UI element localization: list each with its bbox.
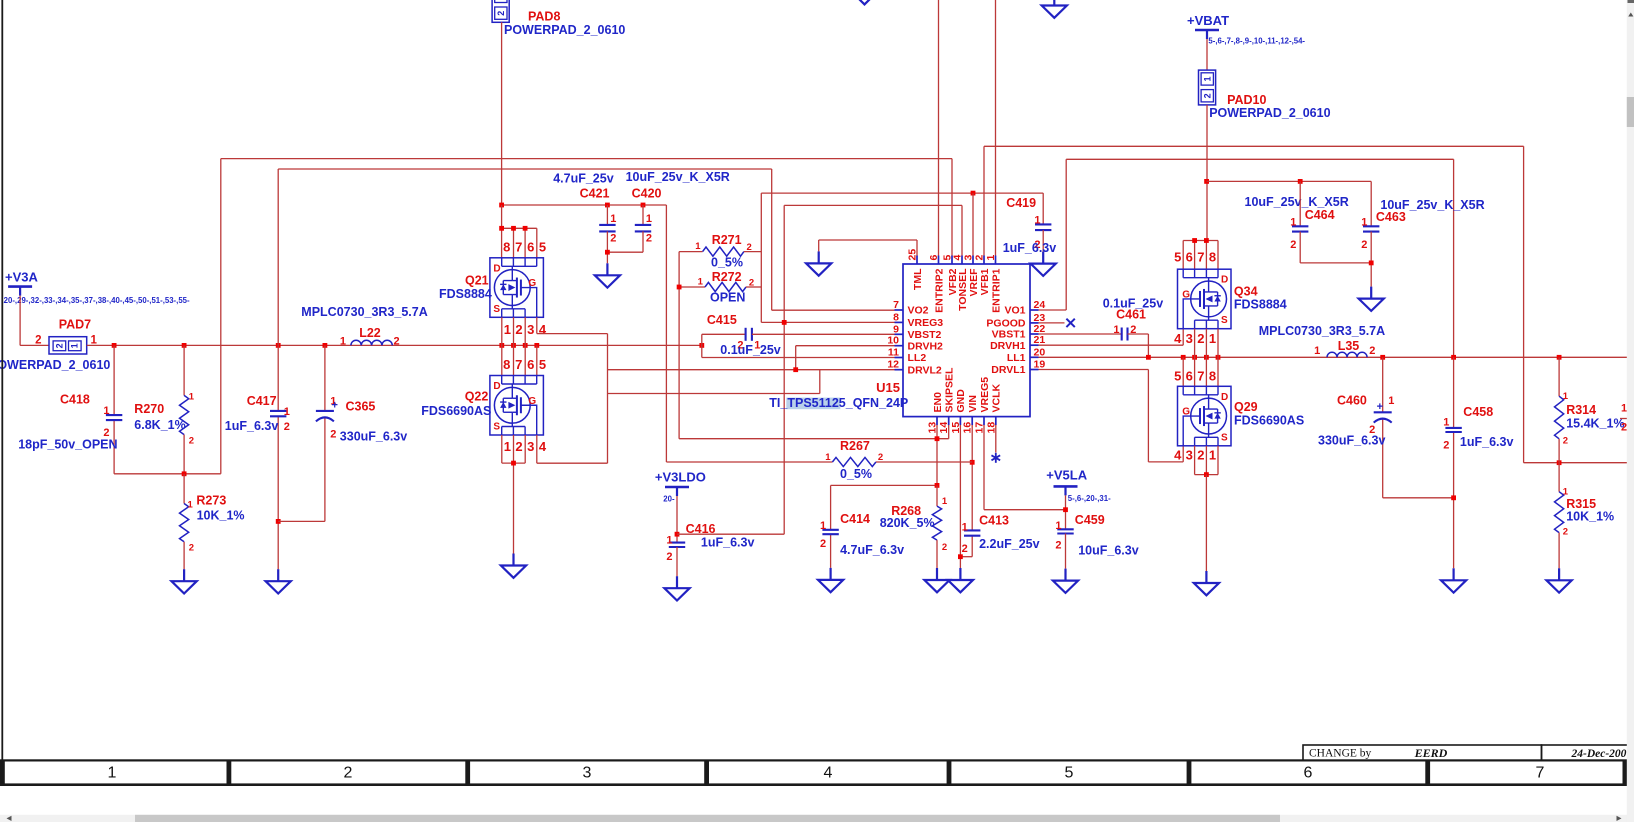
svg-text:+V3A: +V3A: [5, 270, 38, 285]
svg-text:G: G: [1182, 290, 1190, 301]
svg-text:TML: TML: [912, 268, 924, 290]
wire VREG3 line: [761, 193, 1043, 322]
resistor R315: [1555, 463, 1597, 569]
svg-text:2: 2: [1197, 331, 1204, 346]
wire +V3A bus: [87, 344, 702, 346]
junction dot C417/C365: [276, 519, 281, 524]
wire VBST2 left: [702, 333, 746, 335]
wire gate drive riser: [607, 334, 609, 464]
pin numbers Q34 top: [1174, 250, 1216, 265]
pad PAD7: [35, 317, 97, 354]
svg-text:2: 2: [749, 278, 754, 289]
svg-text:GND: GND: [955, 389, 967, 413]
svg-text:C413: C413: [979, 513, 1009, 527]
svg-text:2: 2: [666, 551, 672, 563]
svg-text:24: 24: [1034, 299, 1046, 311]
svg-text:+V3LDO: +V3LDO: [655, 469, 706, 484]
svg-text:C458: C458: [1463, 405, 1493, 419]
svg-text:EN0: EN0: [932, 392, 944, 413]
svg-text:C419: C419: [1006, 196, 1036, 210]
op-amp U15 body TI_TPS51125_QFN_24P: [895, 256, 1039, 426]
junction dot C416 top: [675, 532, 680, 537]
transistor Q22: [421, 376, 543, 436]
svg-text:R267: R267: [840, 439, 870, 453]
label 10uF_6.3v (C459): [1078, 544, 1139, 558]
svg-text:1: 1: [188, 499, 194, 510]
svg-text:VBST1: VBST1: [992, 329, 1026, 341]
svg-text:C417: C417: [247, 394, 277, 408]
power symbol +VBAT: [1187, 13, 1229, 39]
net pin list +V5LA: [1068, 494, 1111, 503]
wire ENTRIP1 riser: [995, 0, 997, 256]
wire LL1 output line: [1039, 356, 1634, 358]
wire Q21 drain header: [502, 205, 537, 258]
pin numbers Q21 top: [503, 240, 546, 255]
wire VFB1 riser and line: [984, 146, 1524, 462]
junction dots on +V3A bus: [112, 343, 705, 348]
ground (C459): [1053, 569, 1078, 593]
junction dot TONSEL/VREG3: [782, 320, 787, 325]
svg-text:+V5LA: +V5LA: [1046, 468, 1087, 483]
label 10uF_25v_K_X5R (C464): [1245, 195, 1349, 209]
svg-text:7: 7: [1536, 765, 1545, 782]
svg-text:1: 1: [1563, 391, 1569, 402]
svg-text:5: 5: [539, 240, 546, 255]
label POWERPAD_2_0610 (PAD7): [0, 358, 110, 372]
svg-text:TI_TPS51125_QFN_24P: TI_TPS51125_QFN_24P: [769, 396, 908, 410]
svg-text:Q22: Q22: [465, 390, 489, 404]
svg-text:6: 6: [1304, 765, 1313, 782]
svg-text:0_5%: 0_5%: [711, 256, 743, 270]
svg-text:ENTRIP2: ENTRIP2: [933, 268, 945, 313]
svg-text:24-Dec-200: 24-Dec-200: [1571, 748, 1627, 760]
junction dot Q22 source: [511, 461, 516, 466]
svg-text:VIN: VIN: [967, 395, 979, 413]
capacitor C420: [607, 187, 661, 253]
resistor R272: [679, 270, 761, 292]
svg-text:PAD10: PAD10: [1227, 93, 1266, 107]
svg-text:C421: C421: [580, 187, 610, 201]
svg-text:POWERPAD_2_0610: POWERPAD_2_0610: [1209, 106, 1330, 120]
svg-text:2: 2: [1563, 526, 1568, 537]
svg-text:1: 1: [1314, 345, 1320, 357]
part number TI_TPS51125_QFN_24P: [769, 396, 908, 410]
svg-text:330uF_6.3v: 330uF_6.3v: [1318, 433, 1385, 447]
svg-text:1: 1: [340, 335, 346, 347]
svg-text:2: 2: [496, 11, 506, 16]
svg-text:SKIPSEL: SKIPSEL: [944, 367, 956, 413]
label 10K_1%: [197, 509, 245, 523]
wire +V5LA to C459: [1063, 495, 1068, 529]
svg-text:11: 11: [888, 347, 899, 359]
label MPLC0730_3R3_5.7A (L22): [301, 305, 427, 319]
capacitor C458: [1443, 405, 1493, 451]
pad PAD8: [492, 0, 625, 37]
svg-text:1: 1: [698, 277, 704, 288]
capacitor C418: [60, 393, 122, 439]
svg-text:5: 5: [1174, 250, 1181, 265]
svg-text:2: 2: [284, 421, 290, 433]
svg-text:330uF_6.3v: 330uF_6.3v: [340, 429, 407, 443]
junction dot R270 bottom: [182, 471, 187, 476]
svg-text:4: 4: [824, 765, 833, 782]
svg-text:FDS6690AS: FDS6690AS: [421, 404, 491, 418]
svg-text:S: S: [493, 304, 500, 315]
svg-text:C415: C415: [707, 313, 737, 327]
svg-text:1: 1: [70, 343, 80, 348]
wire VFB2 riser: [951, 159, 953, 256]
svg-text:2: 2: [1197, 448, 1204, 463]
svg-text:VO1: VO1: [1004, 305, 1025, 317]
wire VIN feed line: [666, 461, 972, 463]
wire DRVL2 line: [608, 369, 895, 371]
label 4.7uF_6.3v (C414): [840, 543, 904, 557]
svg-text:1: 1: [1209, 331, 1216, 346]
svg-text:G: G: [528, 396, 536, 407]
svg-text:0_5%: 0_5%: [840, 467, 872, 481]
svg-text:2: 2: [974, 255, 986, 261]
svg-text:,20-,29-,32-,33-,34-,35-,37-,3: ,20-,29-,32-,33-,34-,35-,37-,38-,40-,45-…: [2, 296, 190, 305]
svg-text:8: 8: [503, 357, 510, 372]
resistor R267: [825, 439, 883, 466]
ground (top partial 2): [1042, 0, 1067, 18]
svg-text:8: 8: [1209, 250, 1216, 265]
wire C417 branch: [277, 169, 279, 569]
svg-text:1: 1: [666, 534, 672, 546]
svg-text:1: 1: [1055, 520, 1061, 532]
svg-text:1: 1: [504, 322, 511, 337]
ground (R268): [924, 568, 949, 592]
svg-text:DRVH1: DRVH1: [990, 340, 1026, 352]
ground (C463/C464): [1359, 287, 1384, 311]
svg-text:2: 2: [820, 538, 826, 550]
wire Q29 source to ground: [1195, 446, 1218, 571]
wire VCLK pin18: [995, 425, 997, 453]
zone numbers: [108, 765, 1545, 782]
svg-text:4: 4: [539, 322, 547, 337]
svg-text:5-,6-,7-,8-,9-,10-,11-,12-,54-: 5-,6-,7-,8-,9-,10-,11-,12-,54-: [1208, 37, 1305, 46]
capacitor C460 (polarized): [1337, 393, 1394, 436]
wire C416 bottom: [676, 547, 678, 576]
svg-text:2: 2: [54, 343, 64, 348]
svg-text:22: 22: [1034, 323, 1046, 335]
capacitor C414: [820, 512, 870, 550]
svg-text:5-,6-,20-,31-: 5-,6-,20-,31-: [1068, 494, 1111, 503]
svg-text:C414: C414: [840, 512, 870, 526]
svg-text:1: 1: [1202, 76, 1212, 81]
svg-text:S: S: [493, 422, 500, 433]
wire C460 branch: [1383, 357, 1454, 498]
net pin list +V3LDO: [663, 494, 675, 503]
wire riser to top rail: [221, 159, 952, 474]
svg-text:LL2: LL2: [908, 352, 927, 364]
svg-text:9: 9: [893, 323, 899, 335]
transistor Q29: [1178, 386, 1305, 446]
svg-text:LL1: LL1: [1007, 352, 1026, 364]
svg-text:20: 20: [1034, 346, 1046, 358]
svg-text:D: D: [1221, 275, 1228, 286]
wire Q22 drain pin5: [536, 345, 538, 375]
wire DRVH2 line: [796, 345, 895, 347]
svg-text:1: 1: [610, 213, 616, 225]
svg-text:2: 2: [1621, 422, 1627, 434]
svg-text:2: 2: [1202, 93, 1212, 98]
junction dots 5V rail: [499, 203, 645, 208]
svg-text:2: 2: [962, 543, 968, 555]
wire TONSEL link: [784, 205, 962, 534]
wire VFB1 feedback line: [1524, 460, 1634, 465]
svg-text:POWERPAD_2_0610: POWERPAD_2_0610: [0, 358, 110, 372]
pin numbers Q29 top: [1174, 368, 1216, 383]
svg-text:12: 12: [887, 359, 899, 371]
svg-text:C463: C463: [1376, 210, 1406, 224]
svg-text:10uF_25v_K_X5R: 10uF_25v_K_X5R: [1245, 195, 1349, 209]
junction dot C421 bottom: [605, 250, 610, 255]
capacitor C416: [666, 522, 715, 563]
svg-text:1: 1: [1388, 395, 1394, 407]
power symbol +V5LA: [1046, 468, 1087, 496]
wire DRVL2 loop: [608, 370, 820, 394]
pin numbers Q29 bottom: [1174, 448, 1216, 463]
reference U15: [876, 380, 900, 395]
wire C418 branch: [114, 345, 221, 473]
svg-text:D: D: [493, 381, 500, 392]
svg-text:2: 2: [1563, 436, 1568, 447]
svg-text:6: 6: [1186, 250, 1193, 265]
svg-text:DRVL1: DRVL1: [991, 364, 1025, 376]
ground (C421/C420): [595, 263, 620, 287]
svg-text:5: 5: [1065, 765, 1074, 782]
svg-text:+: +: [332, 400, 338, 412]
svg-text:19: 19: [1034, 359, 1046, 371]
wire ENTRIP2 riser: [938, 0, 940, 256]
ground (R273): [172, 569, 197, 593]
wire VREF riser: [972, 193, 974, 255]
capacitor C415: [707, 313, 761, 351]
svg-text:1: 1: [1443, 417, 1449, 429]
ground (R315): [1547, 568, 1572, 592]
svg-text:DRVL2: DRVL2: [908, 364, 942, 376]
pin numbers Q34 bottom: [1174, 331, 1216, 346]
label 10uF_25v_K_X5R (C463): [1380, 198, 1484, 212]
svg-text:FDS8884: FDS8884: [439, 287, 492, 301]
capacitor C413: [962, 513, 1009, 555]
wire VBST1 to LL1: [1128, 334, 1149, 357]
label MPLC0730_3R3_5.7A (L35): [1259, 324, 1385, 338]
svg-text:3: 3: [1186, 448, 1193, 463]
no-connect X (PGOOD): [1066, 319, 1074, 327]
wire Q22 gate: [537, 435, 608, 463]
svg-text:EERD: EERD: [1414, 746, 1448, 760]
ground (Q29): [1194, 571, 1219, 595]
svg-text:L35: L35: [1338, 339, 1360, 353]
no-connect star (VCLK): [991, 453, 1000, 463]
svg-text:2: 2: [515, 322, 522, 337]
vertical scrollbar: [1627, 0, 1634, 822]
svg-text:1: 1: [962, 521, 968, 533]
label 6.8K_1%: [134, 418, 185, 432]
svg-text:2: 2: [942, 542, 947, 553]
svg-text:1: 1: [695, 241, 701, 252]
svg-text:2: 2: [189, 436, 194, 447]
svg-text:VREG3: VREG3: [908, 317, 944, 329]
svg-text:1: 1: [646, 213, 652, 225]
svg-text:R270: R270: [134, 402, 164, 416]
svg-text:2: 2: [35, 335, 41, 347]
ground (TML): [806, 251, 831, 275]
ground (top partial 1): [852, 0, 877, 4]
svg-text:10uF_6.3v: 10uF_6.3v: [1078, 544, 1139, 558]
net pin list for +V3A: [2, 296, 190, 305]
svg-text:7: 7: [1197, 250, 1204, 265]
svg-text:1uF_6.3v: 1uF_6.3v: [701, 536, 755, 550]
wire C459 bottom: [1065, 534, 1067, 569]
svg-text:G: G: [1182, 407, 1190, 418]
svg-text:Q34: Q34: [1234, 285, 1258, 299]
wire VBST1 left: [1039, 333, 1122, 335]
svg-text:1: 1: [504, 439, 511, 454]
svg-text:6: 6: [928, 255, 940, 261]
svg-text:R273: R273: [196, 494, 226, 508]
svg-text:C420: C420: [632, 187, 662, 201]
svg-text:1uF_6.3v: 1uF_6.3v: [225, 419, 279, 433]
power symbol +V3A: [5, 270, 38, 296]
svg-text:7: 7: [893, 299, 899, 311]
svg-text:D: D: [1221, 392, 1228, 403]
svg-text:PAD7: PAD7: [59, 317, 91, 331]
svg-text:2: 2: [1290, 239, 1296, 251]
wire GND pin15: [959, 425, 961, 568]
svg-text:MPLC0730_3R3_5.7A: MPLC0730_3R3_5.7A: [301, 305, 427, 319]
wire C416 to TONSEL net: [677, 533, 784, 535]
label 0.1uF_25v (C461): [1103, 297, 1164, 311]
capacitor C461: [1113, 308, 1146, 341]
svg-text:1: 1: [825, 452, 831, 463]
ground (C416): [664, 576, 689, 600]
svg-text:1: 1: [1361, 216, 1367, 228]
svg-text:C464: C464: [1305, 208, 1335, 222]
label OPEN (R272): [710, 290, 745, 304]
pin numbers Q21 bottom: [504, 322, 547, 337]
svg-text:FDS6690AS: FDS6690AS: [1234, 414, 1304, 428]
svg-text:C365: C365: [346, 399, 376, 413]
label 0_5% (R271): [711, 256, 743, 270]
svg-text:0.1uF_25v: 0.1uF_25v: [1103, 297, 1164, 311]
label 0_5% (R267): [840, 467, 872, 481]
net pin list +VBAT: [1208, 37, 1305, 46]
label 0.1uF_25v (C415): [720, 343, 781, 357]
ground (C417): [266, 569, 291, 593]
svg-text:0.1uF_25v: 0.1uF_25v: [720, 343, 781, 357]
ground (Q22): [501, 554, 526, 578]
svg-text:U15: U15: [876, 380, 900, 395]
inductor L35: [1314, 339, 1375, 357]
capacitor C464: [1290, 181, 1371, 263]
wire 5V top rail: [502, 205, 667, 462]
wire PGOOD stub: [1039, 322, 1065, 324]
wire EN0/SKIPSEL line: [679, 425, 949, 485]
svg-text:2.2uF_25v: 2.2uF_25v: [979, 537, 1040, 551]
wire Q34 drain header: [1183, 238, 1218, 269]
label 4.7uF_25v (C421): [553, 171, 614, 185]
svg-text:1: 1: [103, 405, 109, 417]
label 2.2uF_25v (C413): [979, 537, 1040, 551]
svg-text:S: S: [1221, 432, 1228, 443]
capacitor C463: [1361, 181, 1406, 286]
svg-text:4: 4: [1174, 331, 1182, 346]
pin numbers U15: [887, 249, 1045, 434]
svg-text:7: 7: [515, 240, 522, 255]
resistor R314: [1555, 357, 1597, 462]
svg-text:8: 8: [893, 311, 899, 323]
svg-text:6: 6: [527, 240, 534, 255]
title block CHANGE by: [1303, 745, 1542, 760]
label 330uF_6.3v (C460): [1318, 433, 1385, 447]
svg-text:2: 2: [747, 242, 752, 253]
junction dots Q21 top: [499, 226, 527, 231]
svg-text:820K_5%: 820K_5%: [880, 516, 935, 530]
capacitor C421: [580, 187, 617, 264]
svg-text:6: 6: [1186, 368, 1193, 383]
svg-text:ENTRIP1: ENTRIP1: [990, 268, 1002, 313]
svg-text:1: 1: [942, 496, 948, 507]
capacitor C459: [1055, 513, 1104, 551]
inductor L22: [340, 326, 400, 347]
svg-text:10uF_25v_K_X5R: 10uF_25v_K_X5R: [626, 170, 730, 184]
svg-text:C460: C460: [1337, 393, 1367, 407]
svg-text:7: 7: [1197, 368, 1204, 383]
svg-text:3: 3: [527, 322, 534, 337]
resistor at right edge (clipped): [1620, 403, 1634, 434]
svg-text:1uF_6.3v: 1uF_6.3v: [1460, 435, 1514, 449]
capacitor C417: [247, 394, 290, 433]
wire LL2 line: [702, 334, 895, 357]
svg-text:2: 2: [330, 428, 336, 440]
wire VREG5 pin17: [984, 425, 1066, 510]
svg-text:PAD8: PAD8: [528, 10, 560, 24]
svg-text:C418: C418: [60, 393, 90, 407]
svg-text:+: +: [1377, 401, 1383, 413]
wire DRVH1 line: [1039, 328, 1184, 346]
wire C458 branch: [1451, 357, 1456, 568]
pin numbers Q22 bottom: [504, 439, 547, 454]
wire DRVL1 net: [1039, 370, 1184, 462]
junction dot VREF tap: [971, 191, 976, 196]
svg-text:OPEN: OPEN: [710, 290, 745, 304]
svg-text:POWERPAD_2_0610: POWERPAD_2_0610: [504, 23, 625, 37]
horizontal scrollbar: [0, 815, 1634, 822]
svg-text:2: 2: [878, 452, 883, 463]
svg-text:21: 21: [1034, 334, 1046, 346]
label 1uF_6.3v (C419): [1003, 241, 1057, 255]
capacitor C365 (polarized): [316, 395, 376, 440]
svg-text:2: 2: [646, 232, 652, 244]
svg-text:4.7uF_25v: 4.7uF_25v: [553, 171, 614, 185]
label 18pF_50v_OPEN: [18, 438, 117, 452]
wire C414 branch: [830, 485, 832, 568]
transistor Q21: [439, 258, 543, 318]
wire Q21 source to bus: [502, 317, 525, 375]
svg-text:C416: C416: [686, 522, 716, 536]
svg-text:2: 2: [189, 543, 194, 554]
svg-text:R314: R314: [1566, 403, 1596, 417]
junction dots LL1: [1146, 355, 1562, 360]
wire C365 branch: [278, 345, 325, 521]
pin names U15: [908, 268, 1026, 413]
svg-text:S: S: [1221, 315, 1228, 326]
wire EN rail: [677, 252, 682, 439]
title block date: [1542, 745, 1634, 760]
